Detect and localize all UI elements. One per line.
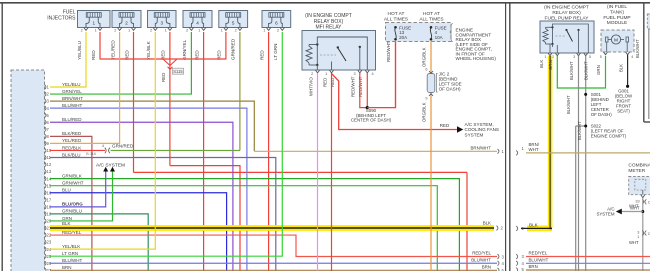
svg-text:YEL/BLU: YEL/BLU [62, 82, 81, 87]
svg-text:5: 5 [589, 55, 591, 59]
svg-text:GRN/BLK: GRN/BLK [62, 173, 82, 178]
svg-text:ORG/BLK: ORG/BLK [422, 102, 427, 122]
svg-text:RED: RED [322, 78, 327, 87]
svg-text:RED: RED [330, 78, 335, 87]
svg-text:1: 1 [637, 235, 639, 239]
svg-text:1: 1 [198, 29, 200, 33]
svg-text:M: M [614, 38, 618, 44]
svg-text:3: 3 [160, 20, 163, 25]
svg-text:GRN/BLU: GRN/BLU [62, 209, 82, 214]
svg-text:GRN: GRN [548, 60, 553, 70]
svg-text:BLK: BLK [529, 223, 539, 228]
svg-text:A/C SYSTEM: A/C SYSTEM [96, 163, 125, 169]
svg-text:RED/WHT: RED/WHT [386, 41, 391, 62]
svg-text:YEL/BLU: YEL/BLU [77, 41, 82, 60]
svg-text:12: 12 [47, 162, 52, 167]
svg-text:1: 1 [325, 72, 327, 76]
svg-text:20A: 20A [399, 35, 407, 40]
svg-text:YEL/BLK: YEL/BLK [146, 40, 151, 60]
svg-text:BLK/WHT: BLK/WHT [566, 95, 571, 114]
svg-text:BLK: BLK [62, 221, 71, 226]
svg-text:BLU/WHT: BLU/WHT [471, 257, 491, 262]
svg-text:HOT AT: HOT AT [388, 11, 405, 17]
svg-text:CENTER OF DASH): CENTER OF DASH) [351, 118, 392, 123]
svg-text:4: 4 [372, 72, 374, 76]
svg-text:RED/BLK: RED/BLK [62, 145, 81, 150]
svg-text:BLK: BLK [483, 220, 491, 225]
svg-text:TANK): TANK) [610, 9, 624, 15]
svg-text:9: 9 [425, 97, 427, 101]
svg-text:GRN: GRN [62, 216, 72, 221]
svg-text:YEL/RED: YEL/RED [110, 40, 115, 60]
svg-text:1: 1 [92, 20, 95, 25]
svg-text:1: 1 [263, 29, 265, 33]
svg-text:YEL/BLK: YEL/BLK [62, 244, 80, 249]
svg-text:17: 17 [47, 197, 52, 202]
svg-text:B-116: B-116 [86, 152, 96, 156]
svg-text:SYSTEM: SYSTEM [465, 133, 484, 138]
svg-text:1: 1 [221, 29, 223, 33]
svg-text:5: 5 [600, 55, 602, 59]
svg-text:BRN: BRN [529, 264, 538, 269]
svg-text:(IN ENGINE COMPT: (IN ENGINE COMPT [544, 5, 589, 11]
svg-text:1: 1 [544, 55, 546, 59]
svg-text:COMBINATION: COMBINATION [628, 162, 650, 168]
svg-text:BLK/WHT: BLK/WHT [584, 61, 589, 80]
svg-text:BRN/WHT: BRN/WHT [62, 96, 83, 101]
svg-text:GRN/RED: GRN/RED [112, 143, 134, 148]
svg-text:BLK/RED: BLK/RED [62, 131, 82, 136]
svg-text:2: 2 [277, 29, 279, 33]
svg-text:13: 13 [47, 169, 52, 174]
svg-text:OF DASH): OF DASH) [591, 112, 613, 117]
svg-text:RELAY BOX): RELAY BOX) [552, 10, 581, 16]
svg-text:WHT: WHT [529, 147, 539, 152]
svg-text:COOLING FANS: COOLING FANS [465, 127, 499, 132]
svg-text:RED/WHT: RED/WHT [358, 76, 363, 97]
svg-text:WHT: WHT [629, 240, 639, 245]
svg-text:FUEL PUMP: FUEL PUMP [603, 15, 630, 21]
svg-text:BLK/WHT: BLK/WHT [635, 39, 640, 58]
svg-text:BLU/WHT: BLU/WHT [529, 257, 549, 262]
svg-text:BLK/BLU: BLK/BLU [62, 152, 81, 157]
svg-text:MODULE: MODULE [607, 20, 628, 26]
svg-text:WHEEL HOUSING): WHEEL HOUSING) [456, 56, 497, 61]
svg-text:RED/YEL: RED/YEL [529, 251, 548, 256]
svg-text:2: 2 [186, 29, 188, 33]
svg-text:GRN/RED: GRN/RED [231, 38, 236, 60]
svg-text:LT GRN: LT GRN [273, 44, 278, 60]
svg-text:GRN: GRN [596, 65, 601, 75]
svg-text:MFI RELAY: MFI RELAY [315, 24, 342, 30]
svg-text:4: 4 [102, 144, 104, 148]
svg-text:6: 6 [425, 68, 427, 72]
svg-text:BLU/WHT: BLU/WHT [62, 103, 83, 108]
svg-text:HOT AT: HOT AT [423, 11, 440, 17]
svg-text:4: 4 [196, 20, 199, 25]
svg-text:A/C SYSTEM,: A/C SYSTEM, [465, 122, 494, 127]
svg-text:YEL/RED: YEL/RED [62, 138, 82, 143]
svg-text:GRN/YEL: GRN/YEL [62, 89, 82, 94]
svg-text:2: 2 [81, 29, 83, 33]
svg-text:4: 4 [631, 55, 633, 59]
svg-text:BLK: BLK [618, 64, 623, 72]
svg-text:2: 2 [235, 29, 237, 33]
svg-text:1: 1 [128, 29, 130, 33]
svg-text:23: 23 [47, 240, 52, 245]
svg-text:BLK/WHT: BLK/WHT [577, 121, 582, 140]
svg-text:SYSTEM: SYSTEM [596, 212, 614, 217]
svg-text:3: 3 [573, 55, 575, 59]
svg-text:10A: 10A [435, 35, 443, 40]
svg-text:METER: METER [628, 168, 645, 174]
svg-text:S115: S115 [173, 69, 183, 74]
svg-text:RED: RED [440, 123, 450, 128]
svg-text:SEAT): SEAT) [617, 109, 630, 114]
svg-text:BLU/RED: BLU/RED [62, 117, 82, 122]
svg-text:RED: RED [91, 50, 96, 60]
svg-text:3: 3 [637, 230, 639, 234]
svg-text:RED: RED [259, 50, 264, 60]
svg-text:BLK/WHT: BLK/WHT [569, 61, 574, 80]
svg-text:RED/WHT: RED/WHT [351, 76, 356, 97]
svg-text:WHT: WHT [630, 205, 640, 210]
svg-text:GRN/WHT: GRN/WHT [62, 181, 84, 186]
svg-text:BLK: BLK [539, 60, 544, 68]
svg-text:INJECTORS: INJECTORS [47, 16, 76, 22]
svg-text:2: 2 [311, 72, 313, 76]
svg-text:6: 6 [275, 20, 278, 25]
svg-text:2: 2 [125, 20, 128, 25]
svg-text:5: 5 [232, 20, 235, 25]
svg-text:3: 3 [353, 72, 355, 76]
svg-text:BLU: BLU [62, 188, 71, 193]
svg-text:LT GRN: LT GRN [62, 251, 78, 256]
svg-text:BRN/WHT: BRN/WHT [471, 145, 492, 150]
svg-text:BLU/WHT: BLU/WHT [62, 258, 83, 263]
svg-text:GRN/YEL: GRN/YEL [182, 39, 187, 60]
svg-text:2: 2 [114, 29, 116, 33]
svg-text:BLU/ORG: BLU/ORG [62, 202, 83, 207]
svg-text:ENGINE COMPT): ENGINE COMPT) [591, 134, 627, 139]
svg-text:1: 1 [165, 29, 167, 33]
svg-text:RED/YEL: RED/YEL [472, 251, 491, 256]
svg-text:ORG/BLK: ORG/BLK [422, 47, 427, 67]
svg-text:RED: RED [161, 73, 166, 82]
svg-text:BRN: BRN [62, 265, 72, 270]
svg-text:WHT/VIO: WHT/VIO [308, 77, 313, 96]
svg-text:(IN FUEL: (IN FUEL [607, 4, 627, 10]
svg-text:ALL TIMES: ALL TIMES [384, 16, 408, 22]
svg-text:ALL TIMES: ALL TIMES [419, 16, 443, 22]
svg-text:2: 2 [150, 29, 152, 33]
svg-text:BRN: BRN [482, 265, 491, 270]
svg-text:1: 1 [95, 29, 97, 33]
svg-text:OF DASH): OF DASH) [439, 87, 461, 92]
